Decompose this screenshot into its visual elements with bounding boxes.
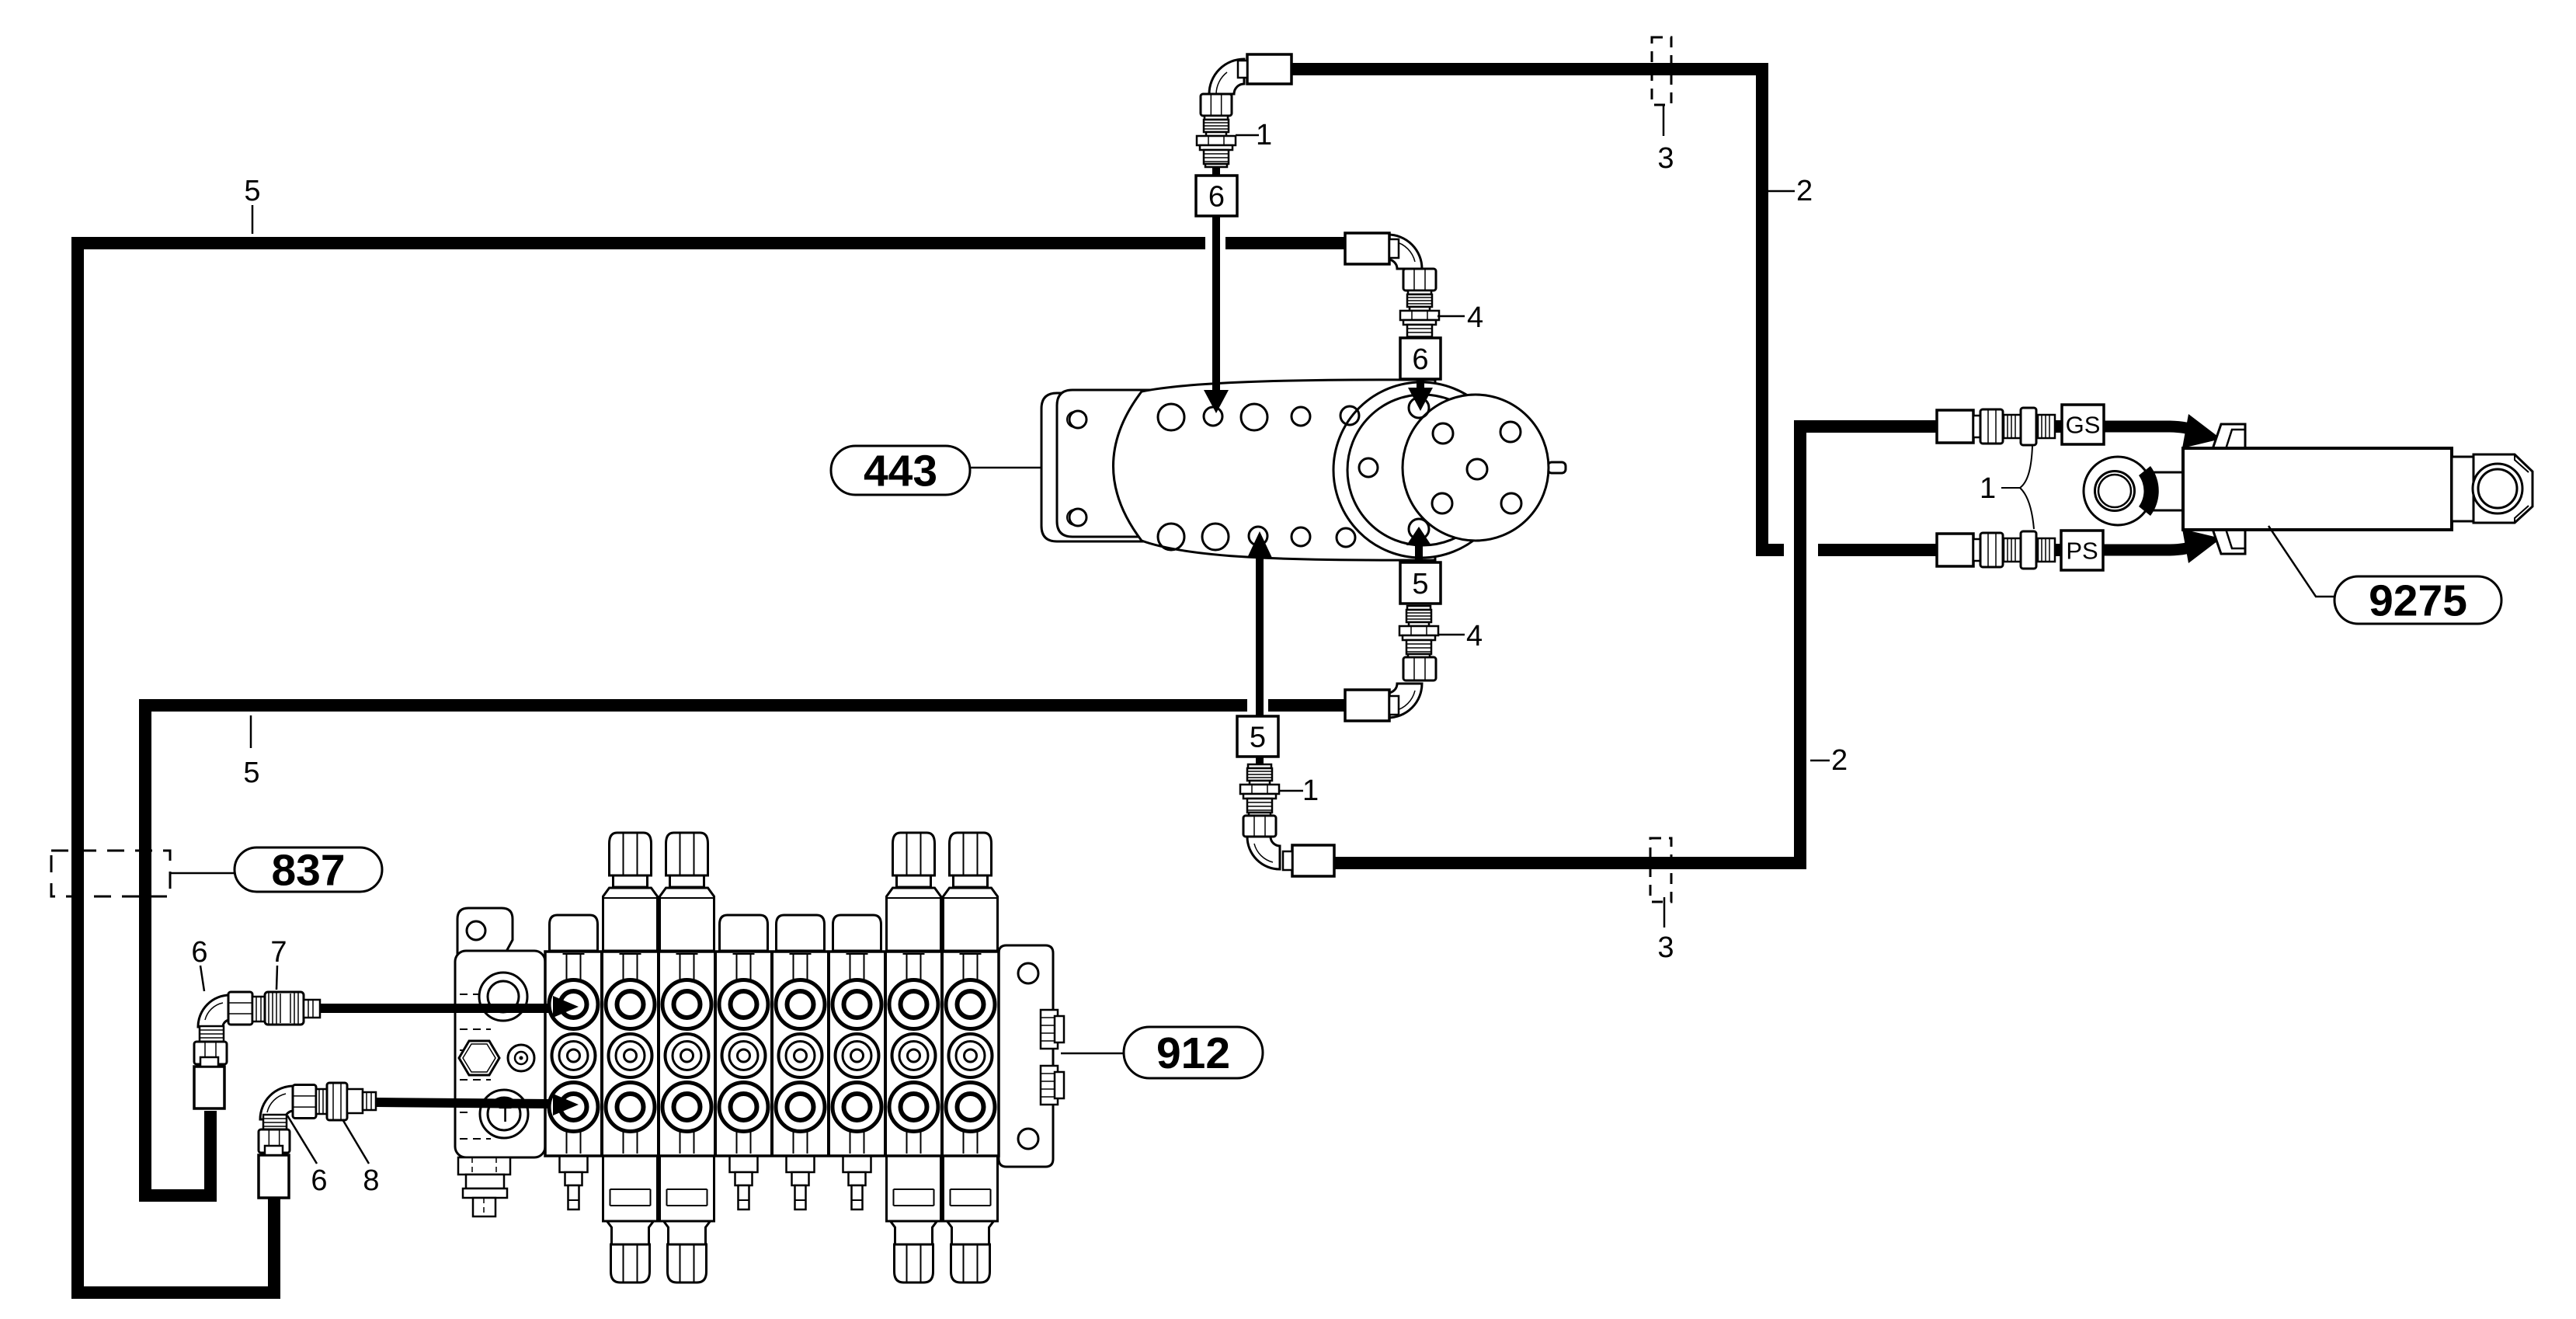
motor 443 mounting plate	[1041, 390, 1149, 541]
valve left cap hex plug	[459, 1041, 499, 1075]
motor inner ring	[1347, 395, 1498, 545]
label 3 (bottom)	[1663, 897, 1666, 927]
valve section 1 top cap	[550, 915, 598, 951]
adapter fitting 7	[252, 997, 265, 1021]
valve 912 main block body	[545, 952, 999, 1156]
straight fitting on PS hose	[1937, 531, 2055, 569]
svg-text:1: 1	[1302, 774, 1319, 807]
valve section 8 bottom cap tower	[944, 1156, 998, 1282]
leader 837	[170, 872, 235, 875]
elbow ferrule bottom mid	[1292, 845, 1334, 876]
leader 443	[970, 467, 1041, 469]
valve left cap small port	[508, 1045, 534, 1071]
label 1 (top fitting)	[1236, 134, 1259, 137]
dashed frame box 3 (top)	[1652, 37, 1671, 105]
hose PS to cylinder with arrow	[2102, 545, 2195, 550]
cylinder trunnion boss circles	[2084, 457, 2152, 525]
valve section 8 top solenoid tower	[944, 833, 998, 951]
elbow fitting 6 (lower left)	[260, 1086, 294, 1119]
motor plate bolt top	[1067, 411, 1086, 428]
leader line to 912 pill	[1061, 1053, 1124, 1055]
part pill 837	[235, 847, 382, 892]
svg-text:5: 5	[1412, 568, 1428, 600]
label 1 (lower fitting)	[1280, 790, 1303, 792]
port box PS	[2061, 531, 2103, 570]
svg-text:3: 3	[1657, 142, 1674, 175]
valve section 3 top solenoid tower	[660, 833, 714, 951]
fitting 7 nut	[228, 992, 252, 1025]
callout box 5	[1400, 562, 1441, 604]
svg-text:2: 2	[1831, 744, 1848, 777]
elbow nut mid	[1403, 269, 1436, 291]
svg-text:9275: 9275	[2369, 576, 2467, 626]
valve section 4 spool ports	[719, 954, 768, 1154]
svg-text:1: 1	[1980, 472, 1996, 505]
valve section 5 spool ports	[776, 954, 825, 1154]
motor flange holes	[1359, 422, 1521, 513]
valve section 6 top cap	[833, 915, 881, 951]
motor front flange	[1403, 395, 1549, 541]
part pill 912	[1124, 1027, 1263, 1078]
svg-text:7: 7	[270, 936, 287, 969]
bulkhead fitting 1 (upper)	[1197, 116, 1236, 167]
cylinder rod boss dark crescent	[2139, 466, 2159, 516]
elbow nut lower mid	[1403, 657, 1436, 680]
leader 9275	[2268, 526, 2334, 597]
valve section 4 top cap	[720, 915, 768, 951]
valve left cap hidden dashes	[460, 994, 491, 1139]
elbow 6 lower hose ferrule	[259, 1155, 289, 1198]
cylinder 9275 lower clevis ear	[2213, 529, 2245, 554]
label 7	[276, 966, 277, 990]
valve section 1 bottom stem	[560, 1156, 588, 1209]
svg-text:GS: GS	[2066, 412, 2101, 439]
svg-text:6: 6	[1208, 181, 1225, 214]
elbow nut top	[1201, 94, 1232, 116]
svg-text:6: 6	[1412, 343, 1428, 376]
motor 443 body	[1114, 380, 1436, 560]
hose to valve bottom port with arrow	[376, 1102, 550, 1104]
motor top bolt holes	[1158, 398, 1429, 430]
valve section divider lines	[602, 952, 942, 1156]
hose GS to cylinder with arrow	[2104, 426, 2195, 431]
callout box 6	[1400, 338, 1441, 379]
svg-text:6: 6	[191, 936, 207, 969]
svg-text:912: 912	[1156, 1028, 1230, 1078]
arrow from box 6 into motor right port	[1417, 379, 1424, 389]
arrow from box 6 into motor left port	[1212, 216, 1220, 392]
elbow ferrule lower mid	[1345, 690, 1389, 721]
label 6 (upper left elbow)	[200, 966, 204, 991]
valve section 8 spool ports	[946, 954, 995, 1154]
elbow 6 upper swivel nut	[194, 1042, 227, 1064]
bulkhead fitting 4 (upper)	[1400, 291, 1439, 342]
dashed frame box 3 (bottom)	[1650, 838, 1671, 902]
valve section 2 bottom cap tower	[603, 1156, 658, 1282]
label 4 (upper fitting)	[1437, 315, 1465, 318]
valve section 7 bottom cap tower	[887, 1156, 941, 1282]
hose 2 (lower): from bottom elbow to cylinder GS	[1333, 426, 1938, 863]
elbow fitting, lower mid hose end	[1388, 684, 1422, 718]
valve section 1 spool ports	[549, 954, 598, 1154]
dashed frame box 837	[51, 851, 170, 896]
label 2 (lower right)	[1810, 760, 1830, 762]
port box GS	[2062, 405, 2104, 444]
svg-text:6: 6	[311, 1164, 327, 1197]
cylinder rod end eye bracket	[2473, 454, 2533, 523]
label 4 (lower fitting)	[1437, 634, 1465, 636]
motor plate bolt bottom	[1067, 509, 1086, 526]
cylinder body	[2183, 448, 2452, 530]
elbow fitting, top hose 2 start	[1209, 59, 1244, 94]
svg-text:443: 443	[864, 447, 937, 496]
svg-text:5: 5	[1250, 722, 1266, 754]
motor bottom bolt holes	[1158, 519, 1429, 550]
valve 912 left end cap	[455, 951, 545, 1157]
svg-text:5: 5	[243, 757, 259, 789]
valve section 6 bottom stem	[843, 1156, 871, 1209]
hose 5 (upper): motor port 6 line, runs left edge	[78, 243, 1345, 1293]
label 5 (top left)	[252, 205, 254, 234]
elbow nut bottom mid	[1243, 816, 1276, 837]
elbow ferrule top	[1247, 54, 1291, 84]
elbow fitting below fitting 1	[1247, 837, 1280, 869]
straight fitting on GS hose	[1937, 408, 2055, 445]
valve section 7 top solenoid tower	[887, 833, 941, 951]
valve left cap T port	[480, 1090, 528, 1138]
valve section 2 top solenoid tower	[603, 833, 658, 951]
valve section 6 spool ports	[833, 954, 881, 1154]
valve section 4 bottom stem	[730, 1156, 758, 1209]
svg-text:837: 837	[271, 846, 345, 896]
label 6 (lower left elbow)	[287, 1115, 317, 1164]
valve section 3 spool ports	[662, 954, 711, 1154]
elbow fitting 6 (upper left)	[198, 995, 230, 1027]
cylinder 9275 upper clevis ear	[2213, 424, 2245, 449]
elbow 6 upper hose ferrule	[194, 1067, 224, 1108]
label 1 (GS/PS fittings) forked leader	[2001, 446, 2034, 529]
fitting 8 nut	[293, 1085, 316, 1119]
bulkhead fitting 8	[316, 1089, 327, 1114]
elbow fitting, mid hose end	[1388, 235, 1422, 269]
callout box 5	[1237, 716, 1278, 757]
valve section 3 bottom cap tower	[660, 1156, 714, 1282]
valve section 2 spool ports	[606, 954, 655, 1154]
svg-text:PS: PS	[2066, 538, 2098, 565]
cylinder rod to body	[2151, 472, 2185, 510]
svg-text:8: 8	[363, 1164, 379, 1197]
part pill 9275	[2334, 576, 2501, 624]
cylinder eye circles	[2473, 464, 2522, 513]
svg-text:3: 3	[1657, 931, 1674, 964]
valve section 5 bottom stem	[787, 1156, 815, 1209]
bulkhead fitting 4 (lower)	[1399, 606, 1438, 657]
hose to valve top port with arrow	[320, 1004, 550, 1013]
label 3 (top)	[1663, 105, 1665, 136]
svg-text:5: 5	[244, 175, 260, 207]
hose 5 (lower): motor port 5 line	[145, 705, 1345, 1195]
arrow from box 5 into motor lower left port	[1256, 556, 1264, 716]
svg-text:2: 2	[1796, 175, 1813, 207]
cylinder rod-end neck	[2452, 457, 2473, 521]
connector below box 5	[1256, 757, 1264, 766]
valve 912 right mounting plate	[999, 945, 1053, 1167]
valve section 7 spool ports	[889, 954, 938, 1154]
valve section 5 top cap	[777, 915, 825, 951]
svg-text:4: 4	[1466, 620, 1483, 653]
bulkhead fitting 1 (lower)	[1240, 764, 1279, 816]
svg-text:4: 4	[1467, 301, 1483, 334]
label 5 (second)	[250, 715, 252, 748]
arrow from box 5 into motor lower right port	[1415, 544, 1423, 562]
valve left cap bottom stack	[458, 1157, 510, 1216]
connector to box 6	[1212, 166, 1220, 176]
hose 2 (upper): from motor top elbow to cylinder PS	[1291, 69, 1938, 550]
part pill 443	[831, 446, 970, 495]
motor shaft stub	[1548, 462, 1566, 473]
label 8	[342, 1119, 369, 1164]
label 2 (top right)	[1768, 190, 1795, 193]
valve left cap top port	[479, 973, 527, 1021]
elbow 6 lower swivel nut	[259, 1129, 290, 1153]
valve 912 right plate bolt block	[1041, 1010, 1064, 1105]
valve 912 left mounting ear	[457, 908, 513, 957]
motor rear ring (large circle)	[1333, 382, 1509, 558]
callout box 6	[1196, 176, 1237, 216]
svg-text:1: 1	[1256, 119, 1272, 151]
elbow ferrule mid	[1345, 233, 1389, 264]
